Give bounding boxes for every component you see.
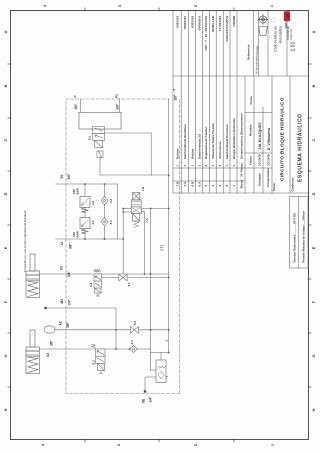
parts list header bottom line <box>244 76 246 193</box>
wire port B1 line <box>56 183 118 185</box>
svg-text:3.2: 3.2 <box>109 198 113 203</box>
wire port A2 line <box>40 273 169 275</box>
wire valve 6.2 drain with throttle 5.1 <box>102 277 169 279</box>
svg-text:1: 1 <box>232 185 236 187</box>
svg-text:10/10/08: 10/10/08 <box>258 154 262 166</box>
svg-text:C20088: C20088 <box>232 16 236 27</box>
svg-text:3/8": 3/8" <box>67 173 71 179</box>
signature row line <box>271 76 273 193</box>
svg-text:AC: AC <box>59 320 63 325</box>
block 7 spring <box>158 366 166 368</box>
junction tank drain <box>168 277 170 279</box>
junction rail AC <box>150 329 152 331</box>
svg-text:3/8": 3/8" <box>116 103 120 109</box>
relief valve 4.1 <box>80 218 90 234</box>
P enclosure block <box>79 112 121 129</box>
svg-text:1: 1 <box>271 444 275 446</box>
svg-text:Presión Máxima de trabajo.....: Presión Máxima de trabajo.....200bar <box>302 210 306 263</box>
svg-text:Denominación y Observaciones: Denominación y Observaciones <box>240 113 244 159</box>
zone tick top border <box>8 332 11 334</box>
junction valve2 feed a <box>122 211 124 213</box>
signature column line <box>245 152 272 154</box>
throttle valve 5.1 on A2 <box>119 274 127 281</box>
svg-text:Electroválvula 3/2: Electroválvula 3/2 <box>197 133 201 159</box>
zone tick right border <box>158 8 160 11</box>
zone tick bottom border <box>308 278 311 280</box>
junction tank left <box>168 352 170 354</box>
svg-text:Bloque Hidráulico Perforado: Bloque Hidráulico Perforado <box>232 118 236 159</box>
relief valve 4.2 <box>80 196 90 212</box>
svg-text:3.3: 3.3 <box>130 340 134 345</box>
svg-text:3: 3 <box>218 165 222 167</box>
signature column line firma <box>245 112 272 114</box>
svg-text:P1: P1 <box>115 94 119 98</box>
svg-text:. . . . .: . . . . . <box>263 44 267 52</box>
svg-text:G: G <box>312 354 316 357</box>
valve 6.3 spring <box>92 344 96 347</box>
zone tick bottom border <box>308 332 311 334</box>
svg-text:Electroválvula Nemática: Electroválvula Nemática <box>183 124 187 159</box>
svg-text:4.1: 4.1 <box>91 220 95 225</box>
svg-text:Plano Nº: Plano Nº <box>289 29 293 40</box>
svg-text:1: 1 <box>190 165 194 167</box>
zone tick top border <box>8 63 11 65</box>
svg-text:A2: A2 <box>60 266 64 270</box>
valve 6.2 spring <box>94 270 100 273</box>
csic block row line <box>267 11 269 76</box>
cylinder on A3 <box>26 330 40 374</box>
junction A3 check <box>129 348 131 350</box>
parts list row line <box>188 11 190 193</box>
manifold block dashed enclosure (item 1) <box>66 99 180 394</box>
svg-text:3/8": 3/8" <box>74 103 78 109</box>
parts list column line marca <box>173 180 245 182</box>
PART: notes box <box>290 197 308 268</box>
svg-text:Automática: Automática <box>278 26 282 43</box>
relief 4.1 spring <box>82 229 89 234</box>
parts list row line <box>209 11 211 193</box>
svg-text:C: C <box>312 138 316 141</box>
svg-text:D: D <box>312 192 316 195</box>
cylinder A3 rod <box>30 330 35 347</box>
svg-text:6.3: 6.3 <box>92 360 96 365</box>
parts list row line <box>180 11 182 193</box>
svg-text:CIRCUITO BLOQUE HIDRAULICO: CIRCUITO BLOQUE HIDRAULICO <box>280 97 285 181</box>
svg-text:6.A: 6.A <box>197 181 201 187</box>
svg-text:Dibujado: Dibujado <box>258 173 262 186</box>
svg-text:G: G <box>4 354 8 357</box>
parts list row line <box>222 11 224 193</box>
parts list column line piezas <box>173 167 245 169</box>
junction valve2 feed b <box>122 208 124 210</box>
svg-text:Firma: Firma <box>249 96 253 105</box>
svg-text:C: C <box>4 138 8 141</box>
zone tick top border <box>8 386 11 388</box>
signature header row line <box>253 76 255 193</box>
svg-text:10/10/08: 10/10/08 <box>267 154 271 166</box>
wire port A1 line <box>56 238 123 240</box>
svg-text:1: 1 <box>270 5 274 7</box>
svg-text:T: T <box>173 89 177 91</box>
signature row line <box>262 107 264 193</box>
PART: parts list text <box>176 15 251 188</box>
svg-text:E: E <box>312 246 316 249</box>
zone tick top border <box>8 224 11 226</box>
svg-text:CSIC-Instituto de: CSIC-Instituto de <box>273 26 277 52</box>
zone tick top border <box>8 278 11 280</box>
svg-text:A: A <box>312 30 316 33</box>
svg-text:5.1: 5.1 <box>127 282 131 287</box>
svg-text:3: 3 <box>218 185 222 187</box>
junction A2 return <box>144 273 146 275</box>
PART: educational watermark stamps <box>23 210 27 272</box>
projection symbol cone <box>258 15 268 36</box>
csic block row line <box>258 11 260 76</box>
svg-text:Conjunto:: Conjunto: <box>291 177 295 191</box>
svg-text:ESQUEMA HIDRÁULICO: ESQUEMA HIDRÁULICO <box>297 113 304 182</box>
svg-text:Bobina: Bobina <box>190 149 194 159</box>
iai red logo <box>284 11 290 21</box>
parts list left border <box>173 192 308 194</box>
svg-text:E. Villanueva: E. Villanueva <box>267 127 271 150</box>
wire relief chain A1-B1 <box>84 184 86 239</box>
svg-text:3.1: 3.1 <box>109 220 113 225</box>
zone tick bottom border <box>308 224 311 226</box>
svg-text:D: D <box>4 192 8 195</box>
svg-text:Comprobado: Comprobado <box>266 168 270 187</box>
svg-text:Referencia: Referencia <box>247 44 251 60</box>
wire 7 block to tank connector <box>160 353 162 361</box>
parts list row line <box>236 11 238 193</box>
svg-text:3/8": 3/8" <box>66 322 70 328</box>
parts list row line <box>215 11 217 193</box>
svg-text:2: 2 <box>225 185 229 187</box>
wire valve 2 bottom stub b <box>141 208 169 210</box>
svg-text:2: 2 <box>165 340 169 342</box>
svg-text:Marca: Marca <box>240 179 244 188</box>
parts list row line <box>229 11 231 193</box>
solenoid valve 6.2 on A2 <box>94 270 102 297</box>
svg-text:6300024: 6300024 <box>176 16 180 28</box>
wire supply rail lower <box>150 209 152 371</box>
svg-text:2: 2 <box>211 165 215 167</box>
junction B1 check <box>104 183 106 185</box>
svg-text:Escala:: Escala: <box>255 45 259 54</box>
svg-text:4: 4 <box>41 443 45 446</box>
signature column line <box>245 167 272 169</box>
svg-text:A1: A1 <box>60 241 64 245</box>
svg-text:3: 3 <box>197 165 201 167</box>
zone tick left border <box>84 439 86 442</box>
solenoid valve 6.3 on A3 <box>92 344 105 374</box>
svg-text:7.B: 7.B <box>141 186 145 192</box>
svg-text:3/8": 3/8" <box>174 94 178 100</box>
svg-text:7.A: 7.A <box>183 181 187 187</box>
svg-text:F: F <box>312 300 316 303</box>
zone tick bottom border <box>308 170 311 172</box>
svg-text:3/8": 3/8" <box>67 271 71 277</box>
cylinder A2 flange <box>26 271 40 275</box>
svg-text:B: B <box>312 84 316 87</box>
svg-text:7.A: 7.A <box>145 217 149 223</box>
wire port P1 stub <box>118 99 120 112</box>
parts list outer top line <box>172 11 174 193</box>
svg-text:BAR: BAR <box>76 187 80 194</box>
svg-text:2: 2 <box>194 5 198 7</box>
svg-text:Tensión Solenoides............: Tensión Solenoides.............24 V DC <box>293 212 297 263</box>
svg-text:M1: M1 <box>142 398 146 403</box>
svg-text:19502130: 19502130 <box>183 16 187 30</box>
wire M2 line <box>46 307 116 309</box>
junction AC M2 <box>115 329 117 331</box>
valve 2 spring <box>133 221 139 227</box>
zone tick top border <box>8 117 11 119</box>
wire filter to tank drop <box>100 158 169 176</box>
svg-text:iai: iai <box>285 14 290 19</box>
wire M2 join AC <box>115 308 117 349</box>
svg-text:2: 2 <box>204 165 208 167</box>
svg-text:Nombre: Nombre <box>249 124 253 136</box>
svg-text:6300024: 6300024 <box>190 16 194 28</box>
svg-text:Antirretorno: Antirretorno <box>218 141 222 159</box>
port M2 gauge square <box>44 307 46 309</box>
svg-text:A: A <box>4 30 8 33</box>
cylinder A2 rod <box>30 254 35 271</box>
throttle valve 5.2 on AC <box>130 326 138 333</box>
junction tank right <box>168 175 170 177</box>
filter at 6.1 <box>97 151 103 158</box>
svg-text:3: 3 <box>118 5 122 7</box>
svg-text:VST - T - 20 - 0S4007215: VST - T - 20 - 0S4007215 <box>204 16 208 51</box>
wire tank connector left <box>151 352 169 354</box>
csic crest faint <box>272 18 276 22</box>
junction B1 relief <box>84 183 86 185</box>
zone tick bottom border <box>308 386 311 388</box>
junction rail valve2 <box>150 208 152 210</box>
check valve 3.3 on A3 <box>130 346 138 353</box>
junction tank valve2 <box>168 208 170 210</box>
zone tick top border <box>8 170 11 172</box>
wire port AC line <box>55 329 169 331</box>
parts list row line <box>195 11 197 193</box>
PART: signature block text <box>249 96 304 192</box>
svg-text:4: 4 <box>211 185 215 187</box>
junction rail A2 <box>150 273 152 275</box>
valve 2 straight arrows <box>132 202 140 205</box>
plano row line <box>286 11 288 76</box>
svg-text:5: 5 <box>204 185 208 187</box>
zone tick bottom border <box>308 117 311 119</box>
junction tank AC <box>168 329 170 331</box>
wire port M1 stub <box>145 377 156 392</box>
svg-text:1: 1 <box>183 165 187 167</box>
svg-text:CSIC: CSIC <box>284 22 288 28</box>
zone tick left border <box>158 439 160 442</box>
wire B1 to A1 link <box>117 184 119 239</box>
valve 2 coil right 7.B <box>133 193 140 200</box>
svg-text:3: 3 <box>117 444 121 446</box>
wire valve 2 top stub b <box>123 208 131 210</box>
svg-text:T07021415: T07021415 <box>218 16 222 32</box>
svg-text:Nº Piezas: Nº Piezas <box>240 163 244 177</box>
solenoid valve 6.1 at P <box>93 127 105 148</box>
pilot check block 7 <box>156 360 166 383</box>
svg-text:0000102007129TS: 0000102007129TS <box>225 16 229 42</box>
projection symbol circle view <box>259 16 266 23</box>
cylinder on A2 <box>26 254 40 298</box>
PART: csic cell <box>255 11 297 74</box>
valve 6.3 tank stub <box>100 371 102 374</box>
zone tick right border <box>84 8 86 11</box>
junction dots <box>84 175 170 354</box>
cylinder A3 piston <box>26 356 39 358</box>
svg-text:6.2: 6.2 <box>89 282 93 287</box>
svg-text:F: F <box>4 300 8 303</box>
wire valve 2 top stub a <box>123 211 131 213</box>
wire valve 6.1 down <box>105 133 152 175</box>
svg-text:4: 4 <box>43 4 47 7</box>
svg-text:H: H <box>4 408 8 411</box>
svg-text:A3: A3 <box>46 353 50 357</box>
svg-text:6.1: 6.1 <box>88 135 92 140</box>
zone tick left border <box>233 439 235 442</box>
svg-text:Fecha: Fecha <box>249 156 253 165</box>
zone tick right border <box>233 8 235 11</box>
svg-text:Bobina: Bobina <box>176 149 180 159</box>
svg-text:6.B: 6.B <box>190 181 194 187</box>
PART: title block grid <box>173 11 308 193</box>
svg-text:B: B <box>4 84 8 87</box>
port M1 gauge square <box>144 390 146 392</box>
svg-text:Válvula de Sobre Presión: Válvula de Sobre Presión <box>211 123 215 159</box>
junction A1 check <box>104 238 106 240</box>
accumulator on AC <box>44 326 55 333</box>
svg-text:Producido por una versión educ: Producido por una versión educativa de A… <box>23 210 27 272</box>
svg-text:SV08030A: SV08030A <box>197 15 201 30</box>
valve 2 crossed arrows <box>132 208 140 213</box>
junction A3 M2 <box>115 348 117 350</box>
svg-text:4.2: 4.2 <box>91 200 95 205</box>
directional valve 2 with coils 7.A 7.B <box>131 193 141 228</box>
cylinder A2 spring <box>28 282 38 297</box>
svg-text:2: 2 <box>194 444 198 446</box>
svg-text:Titulo:: Titulo: <box>272 182 276 191</box>
relief 4.2 spring <box>82 208 89 213</box>
cylinder A3 spring <box>28 358 38 373</box>
svg-text:1.01: 1.01 <box>291 42 297 52</box>
block 7 check diamond <box>158 372 164 379</box>
svg-text:( 1 ): ( 1 ) <box>160 245 164 251</box>
check valve 3.1 <box>101 218 108 226</box>
svg-text:E: E <box>4 246 8 249</box>
svg-text:M2: M2 <box>60 299 64 304</box>
svg-text:1/4": 1/4" <box>68 299 72 305</box>
svg-text:1: 1 <box>225 165 229 167</box>
wire tank rail <box>168 99 170 353</box>
cylinder A3 flange <box>26 347 40 351</box>
wire port A3 line <box>40 348 151 350</box>
svg-text:Electroválvula Dirección: Electroválvula Dirección <box>225 124 229 159</box>
svg-text:3/8": 3/8" <box>50 340 54 346</box>
wire port P stub <box>80 99 82 112</box>
PART: schematic labels <box>46 89 178 404</box>
svg-text:P: P <box>74 95 78 98</box>
csic block top line <box>253 11 255 76</box>
wire rail drop to block 7 <box>151 369 157 371</box>
svg-text:B1: B1 <box>60 174 64 178</box>
svg-text:RONA LAB: RONA LAB <box>211 15 215 32</box>
junction A1 relief <box>84 238 86 240</box>
zone tick bottom border <box>308 63 311 65</box>
junction A1 feed <box>122 238 124 240</box>
svg-text:H: H <box>312 408 316 411</box>
wire check chain A1-B1 <box>104 184 106 239</box>
parts list row line <box>202 11 204 193</box>
titulo row line <box>289 76 291 193</box>
cylinder A2 piston <box>26 280 39 282</box>
notes box border <box>290 197 308 268</box>
notes box divider <box>298 197 300 268</box>
svg-text:Nº de colocados: Nº de colocados <box>255 54 259 74</box>
svg-text:J.M. BLAZQUEZ: J.M. BLAZQUEZ <box>258 122 262 150</box>
svg-text:5.2: 5.2 <box>133 321 137 326</box>
check valve 3.2 <box>101 196 108 204</box>
svg-text:1/4": 1/4" <box>149 396 153 402</box>
valve 6.2 tank stub <box>97 293 99 296</box>
wire valve 2 bottom stub a <box>141 212 144 275</box>
svg-text:7.B: 7.B <box>176 181 180 187</box>
parts list column line referencia <box>173 75 308 77</box>
svg-text:1: 1 <box>232 165 236 167</box>
svg-text:BAR: BAR <box>76 230 80 237</box>
valve 2 coil left 7.A <box>133 214 140 221</box>
svg-text:3/8": 3/8" <box>69 243 73 249</box>
svg-text:1: 1 <box>176 165 180 167</box>
svg-text:Reguladora de Caudal: Reguladora de Caudal <box>204 127 208 159</box>
wire valve 2 feed rail <box>122 209 124 275</box>
